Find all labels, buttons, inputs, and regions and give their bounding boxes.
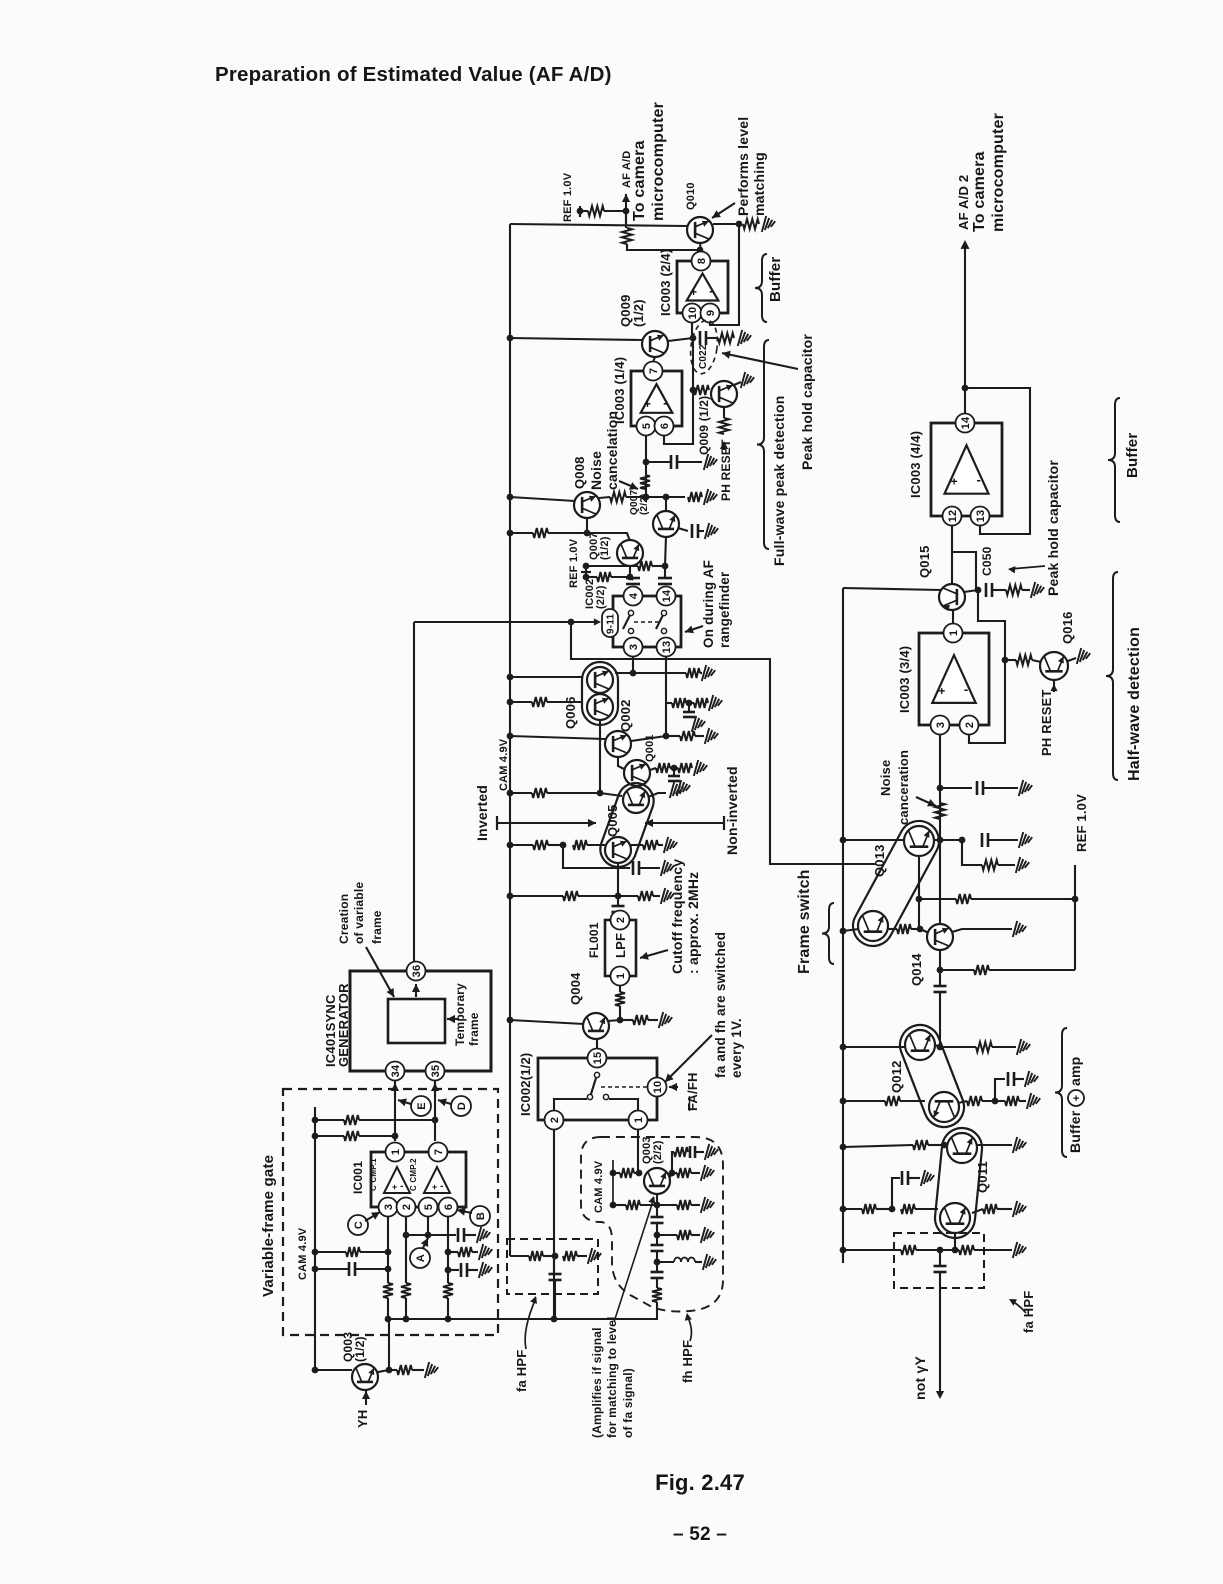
svg-text:YH: YH bbox=[355, 1410, 370, 1428]
svg-text:4: 4 bbox=[628, 592, 640, 599]
svg-text:+: + bbox=[1071, 1095, 1083, 1102]
svg-text:(2/2): (2/2) bbox=[639, 493, 650, 515]
svg-text:2: 2 bbox=[615, 917, 627, 923]
svg-text:Preparation of Estimated Value: Preparation of Estimated Value (AF A/D) bbox=[215, 63, 612, 86]
svg-text:rangefinder: rangefinder bbox=[717, 571, 732, 648]
svg-text:C CMP.1: C CMP.1 bbox=[369, 1158, 378, 1191]
svg-text:CAM 4.9V: CAM 4.9V bbox=[498, 738, 510, 791]
svg-text:13: 13 bbox=[661, 641, 673, 654]
svg-text:C: C bbox=[353, 1221, 365, 1229]
svg-text:Q010: Q010 bbox=[685, 182, 697, 210]
svg-text:6: 6 bbox=[659, 423, 671, 429]
svg-text:amp: amp bbox=[1067, 1057, 1083, 1086]
svg-text:D: D bbox=[456, 1102, 468, 1110]
svg-text:2: 2 bbox=[549, 1117, 561, 1123]
svg-text:GENERATOR: GENERATOR bbox=[336, 983, 351, 1067]
svg-text:On during AF: On during AF bbox=[701, 560, 716, 648]
svg-text:FA/FH: FA/FH bbox=[685, 1072, 700, 1111]
svg-text:IC003 (2/4): IC003 (2/4) bbox=[658, 249, 673, 316]
svg-text:C CMP.2: C CMP.2 bbox=[409, 1158, 418, 1191]
svg-text:frame: frame bbox=[467, 1012, 481, 1046]
svg-text:3: 3 bbox=[935, 722, 947, 728]
svg-text:+: + bbox=[392, 1182, 397, 1192]
svg-text:-: - bbox=[440, 1181, 444, 1192]
svg-text:13: 13 bbox=[975, 510, 987, 523]
svg-text:5: 5 bbox=[641, 423, 653, 429]
svg-text:To camera: To camera bbox=[631, 140, 648, 221]
svg-text:6: 6 bbox=[443, 1204, 455, 1210]
svg-text:36: 36 bbox=[411, 965, 423, 978]
svg-text:Q014: Q014 bbox=[909, 953, 924, 986]
svg-text:34: 34 bbox=[390, 1064, 402, 1077]
svg-text:-: - bbox=[709, 283, 714, 298]
svg-text:Frame switch: Frame switch bbox=[796, 869, 813, 974]
svg-text:Q001: Q001 bbox=[644, 734, 656, 762]
svg-text:9-11: 9-11 bbox=[606, 613, 617, 634]
svg-text:Cutoff frequency: Cutoff frequency bbox=[669, 859, 685, 974]
svg-text:(1/2): (1/2) bbox=[353, 1336, 367, 1362]
svg-text:Temporary: Temporary bbox=[453, 983, 467, 1046]
svg-text:+: + bbox=[938, 684, 945, 698]
svg-text:9: 9 bbox=[705, 310, 717, 316]
svg-text:– 52 –: – 52 – bbox=[673, 1524, 727, 1545]
svg-text:Performs level: Performs level bbox=[735, 117, 751, 216]
svg-text:(2/2): (2/2) bbox=[652, 1140, 664, 1164]
svg-text:Q005: Q005 bbox=[605, 804, 620, 837]
svg-text:Q013: Q013 bbox=[872, 844, 887, 877]
svg-text:-: - bbox=[977, 472, 982, 487]
svg-text:+: + bbox=[644, 397, 651, 411]
svg-text:REF 1.0V: REF 1.0V bbox=[562, 172, 574, 222]
svg-text:(2/2): (2/2) bbox=[595, 585, 607, 609]
svg-text:A: A bbox=[415, 1254, 427, 1262]
svg-text:canceration: canceration bbox=[896, 750, 911, 825]
svg-text:FL001: FL001 bbox=[587, 922, 601, 958]
svg-text:Buffer: Buffer bbox=[1067, 1110, 1083, 1153]
svg-text:fa HPF: fa HPF bbox=[514, 1350, 529, 1392]
svg-text:microcomputer: microcomputer bbox=[990, 113, 1007, 232]
svg-text:-: - bbox=[663, 395, 668, 410]
svg-text:12: 12 bbox=[947, 510, 959, 523]
svg-text:REF 1.0V: REF 1.0V bbox=[1074, 794, 1089, 852]
svg-text:CAM 4.9V: CAM 4.9V bbox=[593, 1160, 605, 1213]
svg-text:C050: C050 bbox=[980, 546, 994, 576]
svg-text:Noise: Noise bbox=[878, 760, 893, 796]
svg-text:fa and fh are switched: fa and fh are switched bbox=[713, 932, 728, 1078]
svg-text:Q016: Q016 bbox=[1060, 611, 1075, 644]
svg-text:35: 35 bbox=[430, 1065, 442, 1078]
svg-text:Non-inverted: Non-inverted bbox=[724, 766, 740, 855]
svg-text:Q012: Q012 bbox=[889, 1060, 904, 1093]
svg-text:Creation: Creation bbox=[337, 894, 351, 944]
svg-text:fh HPF: fh HPF bbox=[680, 1340, 695, 1383]
svg-text:frame: frame bbox=[370, 910, 384, 944]
svg-text:8: 8 bbox=[696, 258, 708, 264]
svg-text:PH RESET: PH RESET bbox=[1039, 689, 1054, 756]
svg-text:+: + bbox=[690, 285, 697, 299]
svg-text:matching: matching bbox=[751, 152, 767, 216]
svg-text:Q015: Q015 bbox=[917, 545, 932, 578]
svg-text:7: 7 bbox=[648, 368, 660, 374]
svg-text:of fa signal): of fa signal) bbox=[621, 1368, 635, 1438]
svg-text:To camera: To camera bbox=[971, 151, 988, 232]
svg-text:of variable: of variable bbox=[352, 882, 366, 944]
svg-text:fa HPF: fa HPF bbox=[1021, 1291, 1036, 1333]
svg-text:1: 1 bbox=[633, 1117, 645, 1123]
svg-text:IC003 (3/4): IC003 (3/4) bbox=[897, 646, 912, 713]
svg-text:1: 1 bbox=[390, 1149, 402, 1155]
svg-text:Q011: Q011 bbox=[975, 1161, 990, 1193]
svg-text:3: 3 bbox=[628, 644, 640, 650]
svg-text:7: 7 bbox=[433, 1149, 445, 1155]
svg-text:: approx. 2MHz: : approx. 2MHz bbox=[685, 872, 701, 974]
svg-text:Full-wave peak detection: Full-wave peak detection bbox=[771, 395, 787, 566]
svg-text:+: + bbox=[432, 1182, 437, 1192]
svg-text:Q008: Q008 bbox=[572, 456, 587, 489]
svg-text:REF 1.0V: REF 1.0V bbox=[568, 538, 580, 588]
svg-text:cancelation: cancelation bbox=[604, 411, 620, 490]
svg-text:Noise: Noise bbox=[588, 451, 604, 490]
svg-text:+: + bbox=[951, 475, 958, 489]
svg-text:3: 3 bbox=[383, 1204, 395, 1210]
svg-text:Fig. 2.47: Fig. 2.47 bbox=[655, 1470, 745, 1495]
svg-text:B: B bbox=[475, 1212, 487, 1220]
svg-text:Inverted: Inverted bbox=[474, 785, 490, 841]
svg-text:1: 1 bbox=[615, 973, 627, 979]
svg-text:IC001: IC001 bbox=[351, 1161, 365, 1194]
svg-text:C022: C022 bbox=[698, 344, 709, 369]
svg-text:1: 1 bbox=[948, 630, 960, 636]
svg-text:Half-wave detection: Half-wave detection bbox=[1126, 627, 1143, 781]
svg-text:every 1V.: every 1V. bbox=[729, 1018, 744, 1078]
svg-text:2: 2 bbox=[964, 722, 976, 728]
svg-text:(Amplifies if signal: (Amplifies if signal bbox=[590, 1327, 604, 1438]
svg-text:5: 5 bbox=[423, 1204, 435, 1210]
svg-text:Buffer: Buffer bbox=[767, 257, 784, 302]
svg-text:Q009 (1/2): Q009 (1/2) bbox=[697, 396, 711, 455]
svg-text:(1/2): (1/2) bbox=[599, 536, 611, 560]
svg-text:Variable-frame gate: Variable-frame gate bbox=[260, 1155, 277, 1297]
svg-text:IC003 (4/4): IC003 (4/4) bbox=[908, 431, 923, 498]
svg-text:(1/2): (1/2) bbox=[631, 299, 646, 327]
svg-text:Peak hold capacitor: Peak hold capacitor bbox=[1045, 460, 1061, 596]
svg-text:Q002: Q002 bbox=[618, 699, 633, 732]
svg-text:CAM 4.9V: CAM 4.9V bbox=[297, 1227, 309, 1280]
svg-text:10: 10 bbox=[652, 1081, 664, 1094]
svg-text:AF A/D 2: AF A/D 2 bbox=[956, 175, 971, 230]
svg-text:for matching to level: for matching to level bbox=[605, 1316, 619, 1438]
svg-text:15: 15 bbox=[592, 1052, 604, 1065]
svg-text:-: - bbox=[400, 1181, 404, 1192]
svg-text:E: E bbox=[416, 1102, 428, 1110]
svg-text:Q004: Q004 bbox=[568, 972, 583, 1005]
svg-text:14: 14 bbox=[960, 416, 972, 429]
svg-text:PH RESET: PH RESET bbox=[719, 439, 733, 501]
svg-text:-: - bbox=[964, 681, 969, 696]
svg-text:LPF: LPF bbox=[613, 933, 628, 958]
svg-text:not γY: not γY bbox=[912, 1356, 928, 1400]
svg-text:14: 14 bbox=[661, 589, 673, 602]
svg-text:IC002(1/2): IC002(1/2) bbox=[518, 1053, 533, 1116]
svg-text:10: 10 bbox=[687, 307, 699, 320]
svg-text:2: 2 bbox=[401, 1204, 413, 1210]
svg-text:microcomputer: microcomputer bbox=[650, 102, 667, 221]
svg-text:Peak hold capacitor: Peak hold capacitor bbox=[799, 334, 815, 470]
svg-text:Buffer: Buffer bbox=[1124, 433, 1141, 478]
